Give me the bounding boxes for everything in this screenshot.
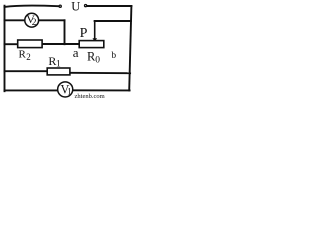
wire left edge <box>4 6 6 92</box>
terminal U left <box>59 5 61 7</box>
svg-text:2: 2 <box>32 18 37 28</box>
wire wiper rail to right edge <box>95 20 131 22</box>
svg-text:U: U <box>71 0 80 14</box>
resistor R0 <box>79 41 104 48</box>
svg-text:b: b <box>111 51 116 61</box>
resistor R2 <box>18 40 42 48</box>
voltmeter V2 <box>25 13 39 27</box>
wire top-left from corner to U left terminal <box>5 6 59 7</box>
wire wiper vertical with arrow <box>94 21 96 39</box>
resistor R1 <box>47 68 70 75</box>
wire rail R2 to R0 <box>42 43 79 45</box>
svg-text:R: R <box>19 49 27 61</box>
wire rail left edge to R2 <box>5 43 18 45</box>
svg-text:0: 0 <box>95 55 100 65</box>
arrowhead of wiper P <box>93 38 98 42</box>
wire junction drop to rail a <box>64 20 66 44</box>
voltmeter V1 <box>58 82 73 97</box>
svg-text:zhtenb.com: zhtenb.com <box>75 93 105 99</box>
svg-text:2: 2 <box>26 52 31 62</box>
wire top-right from U right terminal to corner <box>87 5 131 7</box>
wire V2 right lead <box>39 19 65 21</box>
svg-text:1: 1 <box>56 60 61 70</box>
terminal U right <box>85 5 87 7</box>
wire R1 branch right to right edge <box>70 72 130 74</box>
wire right edge <box>129 6 131 90</box>
wire R1 branch left <box>5 70 48 72</box>
svg-text:a: a <box>73 45 79 60</box>
svg-text:1: 1 <box>67 87 72 97</box>
wire bottom V1 to right edge <box>73 89 129 91</box>
wire V2 left lead <box>5 19 25 21</box>
svg-text:P: P <box>80 26 88 41</box>
wire bottom left to V1 <box>5 89 58 91</box>
